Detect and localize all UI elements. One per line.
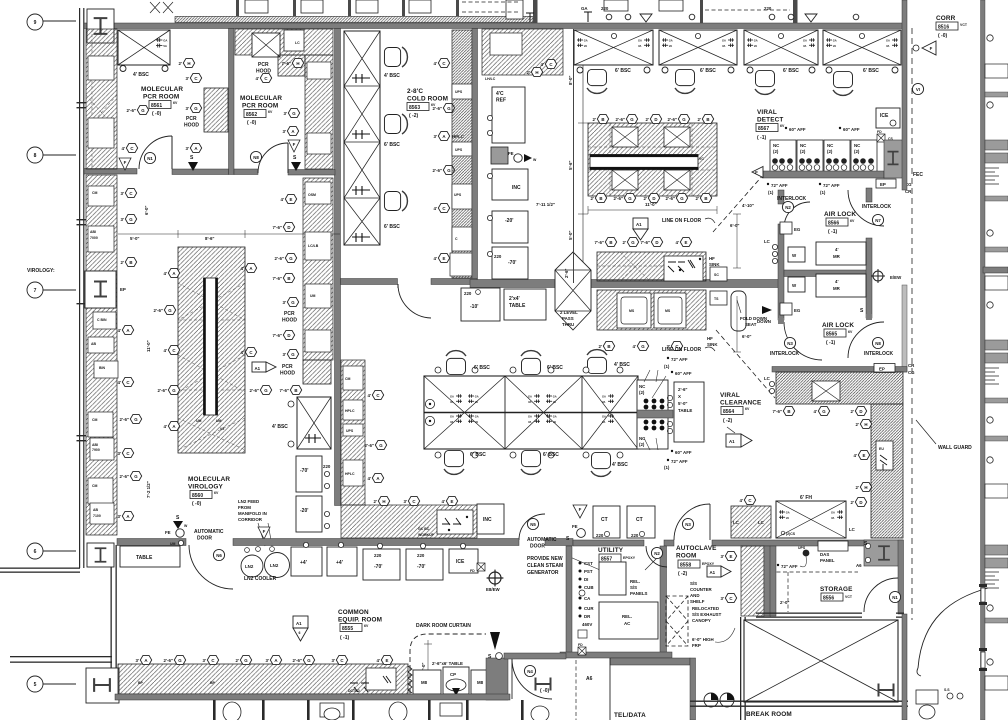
svg-text:72" AFF: 72" AFF xyxy=(823,183,840,188)
island gas cocks xyxy=(450,394,462,404)
EG boxes xyxy=(780,222,792,234)
hood hatch box xyxy=(303,360,331,384)
svg-text:N3: N3 xyxy=(787,341,793,346)
dark room wall block xyxy=(486,658,508,700)
dimension line mid lab xyxy=(582,60,584,278)
svg-text:DARK ROOM CURTAIN: DARK ROOM CURTAIN xyxy=(416,623,471,629)
svg-text:4'C: 4'C xyxy=(496,91,504,97)
svg-text:6V: 6V xyxy=(745,407,750,411)
svg-text:E/EW: E/EW xyxy=(890,275,902,280)
island X boxes top xyxy=(612,127,638,147)
cold room right bench xyxy=(452,30,472,278)
svg-text:FROM: FROM xyxy=(238,505,251,510)
svg-text:CM: CM xyxy=(92,484,98,488)
svg-text:INC: INC xyxy=(483,517,492,523)
svg-text:( -2): ( -2) xyxy=(723,418,733,424)
svg-text:LC/LB: LC/LB xyxy=(308,244,319,248)
svg-text:A1: A1 xyxy=(710,570,716,575)
airlock jamb stubs xyxy=(778,318,784,324)
autoclave hatch bench + wall xyxy=(741,546,764,616)
svg-text:3': 3' xyxy=(404,499,408,504)
svg-text:INTERLOCK: INTERLOCK xyxy=(862,204,892,210)
svg-text:D: D xyxy=(287,333,290,338)
svg-text:2'-6": 2'-6" xyxy=(293,658,302,663)
island stools bottom xyxy=(444,450,464,474)
svg-text:PCR: PCR xyxy=(282,364,293,370)
svg-text:COUNTER: COUNTER xyxy=(690,587,713,592)
svg-text:LC: LC xyxy=(733,520,740,525)
4C REF box xyxy=(492,87,525,143)
svg-text:2': 2' xyxy=(623,240,627,245)
svg-text:+4': +4' xyxy=(300,560,307,566)
svg-text:B: B xyxy=(609,240,612,245)
grid line 8 xyxy=(43,154,76,156)
svg-text:UPS: UPS xyxy=(346,429,354,433)
F triangle PCR1 xyxy=(119,158,131,170)
svg-text:4': 4' xyxy=(814,409,818,414)
svg-text:DI: DI xyxy=(584,577,588,582)
E/EW xyxy=(487,570,504,587)
svg-text:S.S: S.S xyxy=(944,688,950,692)
svg-text:AB: AB xyxy=(93,508,99,512)
svg-text:-20': -20' xyxy=(505,218,513,224)
svg-text:( -0): ( -0) xyxy=(938,33,948,39)
svg-text:PCR ROOM: PCR ROOM xyxy=(143,94,179,101)
svg-text:CLEARANCE: CLEARANCE xyxy=(720,400,762,407)
svg-text:4': 4' xyxy=(541,62,545,67)
cold room BSC column xyxy=(344,31,380,245)
left wall mullion ticks xyxy=(77,102,87,441)
svg-text:220: 220 xyxy=(764,6,772,11)
svg-text:G: G xyxy=(447,106,451,111)
svg-text:(2): (2) xyxy=(827,149,833,154)
svg-text:CR: CR xyxy=(908,363,915,368)
svg-text:PROVIDE NEW: PROVIDE NEW xyxy=(527,556,563,562)
svg-text:2': 2' xyxy=(646,117,650,122)
L bench bottom leg xyxy=(341,505,477,538)
svg-text:G: G xyxy=(129,217,133,222)
svg-text:S/S: S/S xyxy=(690,581,697,586)
svg-text:3': 3' xyxy=(332,658,336,663)
svg-text:PCR: PCR xyxy=(258,62,269,68)
svg-text:220: 220 xyxy=(596,533,604,538)
svg-text:7'-6": 7'-6" xyxy=(282,61,291,66)
svg-text:-20': -20' xyxy=(300,508,308,514)
svg-text:72" AFF: 72" AFF xyxy=(671,459,688,464)
60 AFF notes xyxy=(785,127,787,129)
svg-text:4'-10": 4'-10" xyxy=(742,203,754,208)
svg-text:4': 4' xyxy=(442,499,446,504)
svg-text:ROOM: ROOM xyxy=(676,553,696,560)
svg-text:4' BSC: 4' BSC xyxy=(384,73,400,79)
svg-text:NC: NC xyxy=(773,143,780,148)
svg-text:DOWN: DOWN xyxy=(757,319,771,324)
svg-text:EP: EP xyxy=(880,182,886,187)
svg-text:B: B xyxy=(706,117,709,122)
grid bubble 6 xyxy=(27,543,43,559)
storage door N1 xyxy=(864,578,898,612)
svg-text:( -2): ( -2) xyxy=(678,571,688,577)
svg-text:4': 4' xyxy=(835,247,839,252)
svg-text:6' BSC: 6' BSC xyxy=(547,365,563,371)
svg-text:(2): (2) xyxy=(639,442,645,447)
svg-text:3': 3' xyxy=(283,129,287,134)
gas cock glyphs on BSC column xyxy=(352,74,370,242)
svg-text:LINE ON FLOOR: LINE ON FLOOR xyxy=(662,218,702,224)
svg-text:2 LEVEL: 2 LEVEL xyxy=(560,310,578,315)
svg-text:( -1): ( -1) xyxy=(826,340,836,346)
svg-text:60" AFF: 60" AFF xyxy=(675,450,692,455)
svg-text:60" AFF: 60" AFF xyxy=(789,127,806,132)
svg-text:B: B xyxy=(294,388,297,393)
svg-text:NC: NC xyxy=(639,384,646,389)
W boxes xyxy=(788,247,805,262)
svg-text:( -0): ( -0) xyxy=(247,120,257,126)
svg-text:(1): (1) xyxy=(768,190,774,195)
long counter wall xyxy=(470,280,782,288)
svg-text:EP: EP xyxy=(879,367,885,372)
svg-text:G: G xyxy=(178,658,182,663)
grid bubble 8 xyxy=(27,147,43,163)
svg-text:(2): (2) xyxy=(854,149,860,154)
svg-text:8558: 8558 xyxy=(680,563,691,569)
svg-text:HPLC: HPLC xyxy=(345,409,355,413)
svg-text:8'-6": 8'-6" xyxy=(205,236,214,241)
svg-text:2': 2' xyxy=(644,196,648,201)
F triangle PCR2 xyxy=(288,140,300,152)
svg-text:STORAGE: STORAGE xyxy=(820,586,853,593)
svg-text:FD: FD xyxy=(877,130,882,134)
svg-text:CM: CM xyxy=(345,377,351,381)
relocated canopy dashed xyxy=(666,596,688,646)
svg-text:AUTOCLAVE: AUTOCLAVE xyxy=(676,545,717,552)
east wing comb fixtures xyxy=(985,168,999,588)
svg-text:72" AFF: 72" AFF xyxy=(781,564,798,569)
N5 tag xyxy=(527,518,538,529)
svg-text:2'-6": 2'-6" xyxy=(616,117,625,122)
72 AFF notes below xyxy=(767,183,769,185)
BSC cabinet 3 xyxy=(744,30,818,94)
svg-text:(2): (2) xyxy=(639,390,645,395)
svg-text:EQUIP. ROOM: EQUIP. ROOM xyxy=(338,617,382,624)
svg-text:UM: UM xyxy=(216,419,222,423)
svg-text:3': 3' xyxy=(118,451,122,456)
svg-text:8566: 8566 xyxy=(828,221,839,227)
svg-text:( -0): ( -0) xyxy=(192,501,202,507)
svg-text:6'-0": 6'-0" xyxy=(742,334,751,339)
svg-text:2'-6": 2'-6" xyxy=(158,388,167,393)
svg-text:LINE ON FLOOR: LINE ON FLOOR xyxy=(662,347,702,353)
svg-text:2'-6": 2'-6" xyxy=(433,168,442,173)
svg-text:N1: N1 xyxy=(147,156,153,161)
door N3 airlock xyxy=(784,322,822,360)
svg-text:60" AFF: 60" AFF xyxy=(843,127,860,132)
svg-text:BP: BP xyxy=(138,681,144,685)
svg-text:OSM: OSM xyxy=(308,193,316,197)
BSC cabinet 1 xyxy=(574,30,653,93)
east corridor extra stubs xyxy=(985,92,1008,623)
svg-text:4': 4' xyxy=(854,453,858,458)
left bench equipment boxes xyxy=(88,186,118,524)
svg-text:E: E xyxy=(290,197,293,202)
PCR1 door N1 xyxy=(139,136,172,169)
svg-text:220: 220 xyxy=(631,533,639,538)
svg-text:CT: CT xyxy=(601,517,608,523)
alley top bench hatch xyxy=(482,29,563,75)
svg-text:2'-6": 2'-6" xyxy=(127,108,136,113)
svg-text:4': 4' xyxy=(118,328,122,333)
svg-text:2'-6": 2'-6" xyxy=(120,417,129,422)
svg-text:2'-6": 2'-6" xyxy=(120,474,129,479)
LN2 vessels xyxy=(241,555,263,577)
svg-text:-70': -70' xyxy=(374,564,382,570)
svg-text:CORRIDOR: CORRIDOR xyxy=(238,517,263,522)
svg-text:D: D xyxy=(655,240,658,245)
svg-text:7'-6": 7'-6" xyxy=(273,225,282,230)
svg-text:G: G xyxy=(447,168,451,173)
E/EW symbol xyxy=(871,269,885,283)
svg-text:A1: A1 xyxy=(636,222,642,227)
svg-text:AUTOMATIC: AUTOMATIC xyxy=(527,537,557,543)
svg-text:VCT: VCT xyxy=(845,595,853,599)
svg-text:G: G xyxy=(264,388,268,393)
big X table xyxy=(744,620,898,702)
svg-text:G: G xyxy=(307,658,311,663)
LC hatch cart xyxy=(731,506,771,538)
svg-text:2'-0": 2'-0" xyxy=(780,600,789,605)
BSC cabinet 2 xyxy=(659,30,737,93)
svg-text:4' BSC: 4' BSC xyxy=(612,462,628,468)
svg-text:F: F xyxy=(293,142,296,147)
svg-text:CM: CM xyxy=(92,418,98,422)
grid line 5 xyxy=(43,683,76,685)
svg-text:6' BSC: 6' BSC xyxy=(863,68,879,74)
svg-text:MOLECULAR: MOLECULAR xyxy=(240,95,282,102)
utility room walls xyxy=(560,546,672,658)
PCR1 4' BSC cabinet xyxy=(118,30,170,65)
INC box right of L bench xyxy=(477,504,504,534)
BSC cabinet 4 xyxy=(823,30,901,95)
left wall hex tags xyxy=(121,188,137,197)
svg-text:6' BSC: 6' BSC xyxy=(700,68,716,74)
svg-text:HF: HF xyxy=(709,256,715,261)
svg-text:LN2 FEED: LN2 FEED xyxy=(238,499,259,504)
bottom wall right xyxy=(690,701,908,707)
svg-text:+4': +4' xyxy=(336,560,343,566)
CT boxes xyxy=(593,506,620,538)
fold down seat xyxy=(731,291,746,331)
center bench dashed guides xyxy=(597,252,706,281)
svg-text:UM: UM xyxy=(310,294,316,298)
svg-text:D: D xyxy=(287,225,290,230)
svg-text:(2)CS: (2)CS xyxy=(786,532,796,536)
PCR2 door N8 xyxy=(258,143,288,173)
door N7 airlock xyxy=(848,190,884,226)
dim line at y234 xyxy=(118,230,340,238)
bottom bench hex tags xyxy=(136,655,152,664)
svg-text:2': 2' xyxy=(179,61,183,66)
corridor swing door curve xyxy=(918,588,988,668)
island spine xyxy=(590,155,698,170)
svg-text:G: G xyxy=(291,300,295,305)
svg-text:CORR: CORR xyxy=(936,15,956,22)
svg-text:6'-0" HIGH: 6'-0" HIGH xyxy=(692,637,714,642)
INC box xyxy=(492,169,528,200)
island stools top xyxy=(446,351,466,375)
svg-text:6: 6 xyxy=(34,549,37,555)
svg-text:UPS: UPS xyxy=(798,546,806,550)
svg-text:4': 4' xyxy=(835,279,839,284)
gray cart box xyxy=(491,147,508,164)
svg-text:CM: CM xyxy=(92,191,98,195)
svg-text:H: H xyxy=(535,70,538,75)
svg-text:2': 2' xyxy=(121,260,125,265)
svg-text:N4: N4 xyxy=(527,669,533,674)
A1 shield pointing right xyxy=(252,362,266,372)
cold room right wall xyxy=(472,29,478,285)
svg-text:8561: 8561 xyxy=(151,103,162,109)
bottom rooms fixtures xyxy=(213,700,524,720)
svg-text:(1): (1) xyxy=(664,465,670,470)
WALL GUARD note xyxy=(916,420,936,444)
svg-text:D: D xyxy=(652,196,655,201)
svg-text:4': 4' xyxy=(241,266,245,271)
svg-text:N5: N5 xyxy=(530,522,536,527)
svg-text:N8: N8 xyxy=(253,155,259,160)
svg-text:6'-0": 6'-0" xyxy=(144,206,149,215)
svg-text:2'-6": 2'-6" xyxy=(164,658,173,663)
svg-text:G: G xyxy=(168,308,172,313)
svg-text:220: 220 xyxy=(494,254,502,259)
svg-text:2'-6": 2'-6" xyxy=(614,196,623,201)
-10 box below wall xyxy=(461,288,500,321)
svg-text:4': 4' xyxy=(368,393,372,398)
svg-text:INTERLOCK: INTERLOCK xyxy=(770,351,800,357)
M8 CP M8 boxes xyxy=(413,670,441,694)
EP box xyxy=(876,179,896,188)
svg-text:FD: FD xyxy=(578,643,583,647)
svg-text:VIRAL: VIRAL xyxy=(720,392,740,399)
dashed line on floor diag lower xyxy=(716,330,775,398)
svg-text:5'-0": 5'-0" xyxy=(568,231,573,240)
svg-text:8: 8 xyxy=(34,153,37,159)
svg-text:D: D xyxy=(859,500,862,505)
svg-text:A6: A6 xyxy=(586,676,593,682)
svg-text:FD: FD xyxy=(470,569,475,573)
svg-text:THRU: THRU xyxy=(562,322,574,327)
PCR2 hexagon tags xyxy=(282,58,304,67)
column I-beam at grid 6 xyxy=(87,543,114,567)
svg-text:LC: LC xyxy=(764,239,771,244)
svg-text:REL.: REL. xyxy=(622,614,632,619)
svg-text:4': 4' xyxy=(122,146,126,151)
svg-text:E: E xyxy=(730,554,733,559)
svg-text:PANELS: PANELS xyxy=(630,591,648,596)
svg-text:SHELF: SHELF xyxy=(690,599,705,604)
svg-text:CG: CG xyxy=(908,370,915,375)
svg-text:LN2 COOLER: LN2 COOLER xyxy=(244,576,277,582)
svg-text:COMMON: COMMON xyxy=(338,609,369,616)
svg-text:F: F xyxy=(579,507,582,512)
island end circles xyxy=(425,399,434,408)
svg-text:8565: 8565 xyxy=(826,332,837,338)
dashed line on floor diag upper xyxy=(713,174,764,232)
grid bubble 7 xyxy=(27,282,43,298)
svg-text:HOOD: HOOD xyxy=(280,371,295,377)
svg-text:6V: 6V xyxy=(848,330,853,334)
PCR south wall segments xyxy=(84,169,335,176)
svg-text:X: X xyxy=(678,394,681,399)
svg-text:LC: LC xyxy=(758,520,765,525)
svg-text:M8: M8 xyxy=(477,680,484,685)
svg-text:LC: LC xyxy=(849,527,856,532)
svg-text:2'-6": 2'-6" xyxy=(365,443,374,448)
svg-text:(2): (2) xyxy=(773,149,779,154)
svg-text:F: F xyxy=(930,46,933,51)
svg-text:FE: FE xyxy=(572,524,578,529)
svg-text:B: B xyxy=(129,260,132,265)
svg-text:4': 4' xyxy=(434,61,438,66)
svg-text:72" AFF: 72" AFF xyxy=(671,357,688,362)
svg-text:VI: VI xyxy=(916,87,920,92)
svg-text:G: G xyxy=(630,117,634,122)
svg-text:CUR: CUR xyxy=(584,606,594,611)
svg-text:UPS: UPS xyxy=(455,148,463,152)
east wall door jambs lower xyxy=(981,588,985,668)
svg-text:7'-6": 7'-6" xyxy=(280,388,289,393)
svg-text:N2: N2 xyxy=(654,551,660,556)
svg-text:11'-0": 11'-0" xyxy=(146,340,151,352)
svg-text:2': 2' xyxy=(856,422,860,427)
N4 door xyxy=(512,659,552,699)
svg-text:3': 3' xyxy=(136,658,140,663)
small table right of island xyxy=(674,382,704,442)
svg-text:DAS: DAS xyxy=(820,552,829,557)
svg-text:EG: EG xyxy=(794,308,801,313)
svg-text:CANOPY: CANOPY xyxy=(692,618,711,623)
cold room south wall xyxy=(341,279,478,285)
VC L-bench top xyxy=(776,372,903,404)
svg-text:NC: NC xyxy=(854,143,861,148)
svg-text:A1: A1 xyxy=(729,439,735,444)
svg-text:6V: 6V xyxy=(173,101,178,105)
upper island dashed guides xyxy=(588,123,717,196)
door N2 utility/autoclave xyxy=(646,546,667,567)
svg-text:( -1): ( -1) xyxy=(757,135,767,141)
svg-text:D: D xyxy=(654,117,657,122)
grid line 7 xyxy=(43,289,76,291)
svg-text:HPLC: HPLC xyxy=(345,472,355,476)
cold room door xyxy=(398,284,431,318)
column I-beam at grid 5 xyxy=(86,668,119,703)
svg-text:AIR LOCK: AIR LOCK xyxy=(822,322,854,329)
svg-text:2': 2' xyxy=(527,70,531,75)
cold room stools xyxy=(384,47,407,67)
rooms above corridor: door frames xyxy=(245,0,683,19)
svg-text:4': 4' xyxy=(118,380,122,385)
svg-text:( -0): ( -0) xyxy=(152,111,162,117)
svg-text:REF: REF xyxy=(496,98,506,104)
svg-text:EG: EG xyxy=(794,227,801,232)
F triangle below note xyxy=(258,527,270,539)
svg-text:2': 2' xyxy=(593,117,597,122)
west wall stub at grid 6 xyxy=(0,568,80,573)
svg-text:EPOXY: EPOXY xyxy=(702,562,715,566)
svg-text:4' BSC: 4' BSC xyxy=(133,72,149,78)
svg-text:4' BSC: 4' BSC xyxy=(614,362,630,368)
svg-text:MR: MR xyxy=(833,286,841,291)
svg-text:PST: PST xyxy=(584,569,593,574)
